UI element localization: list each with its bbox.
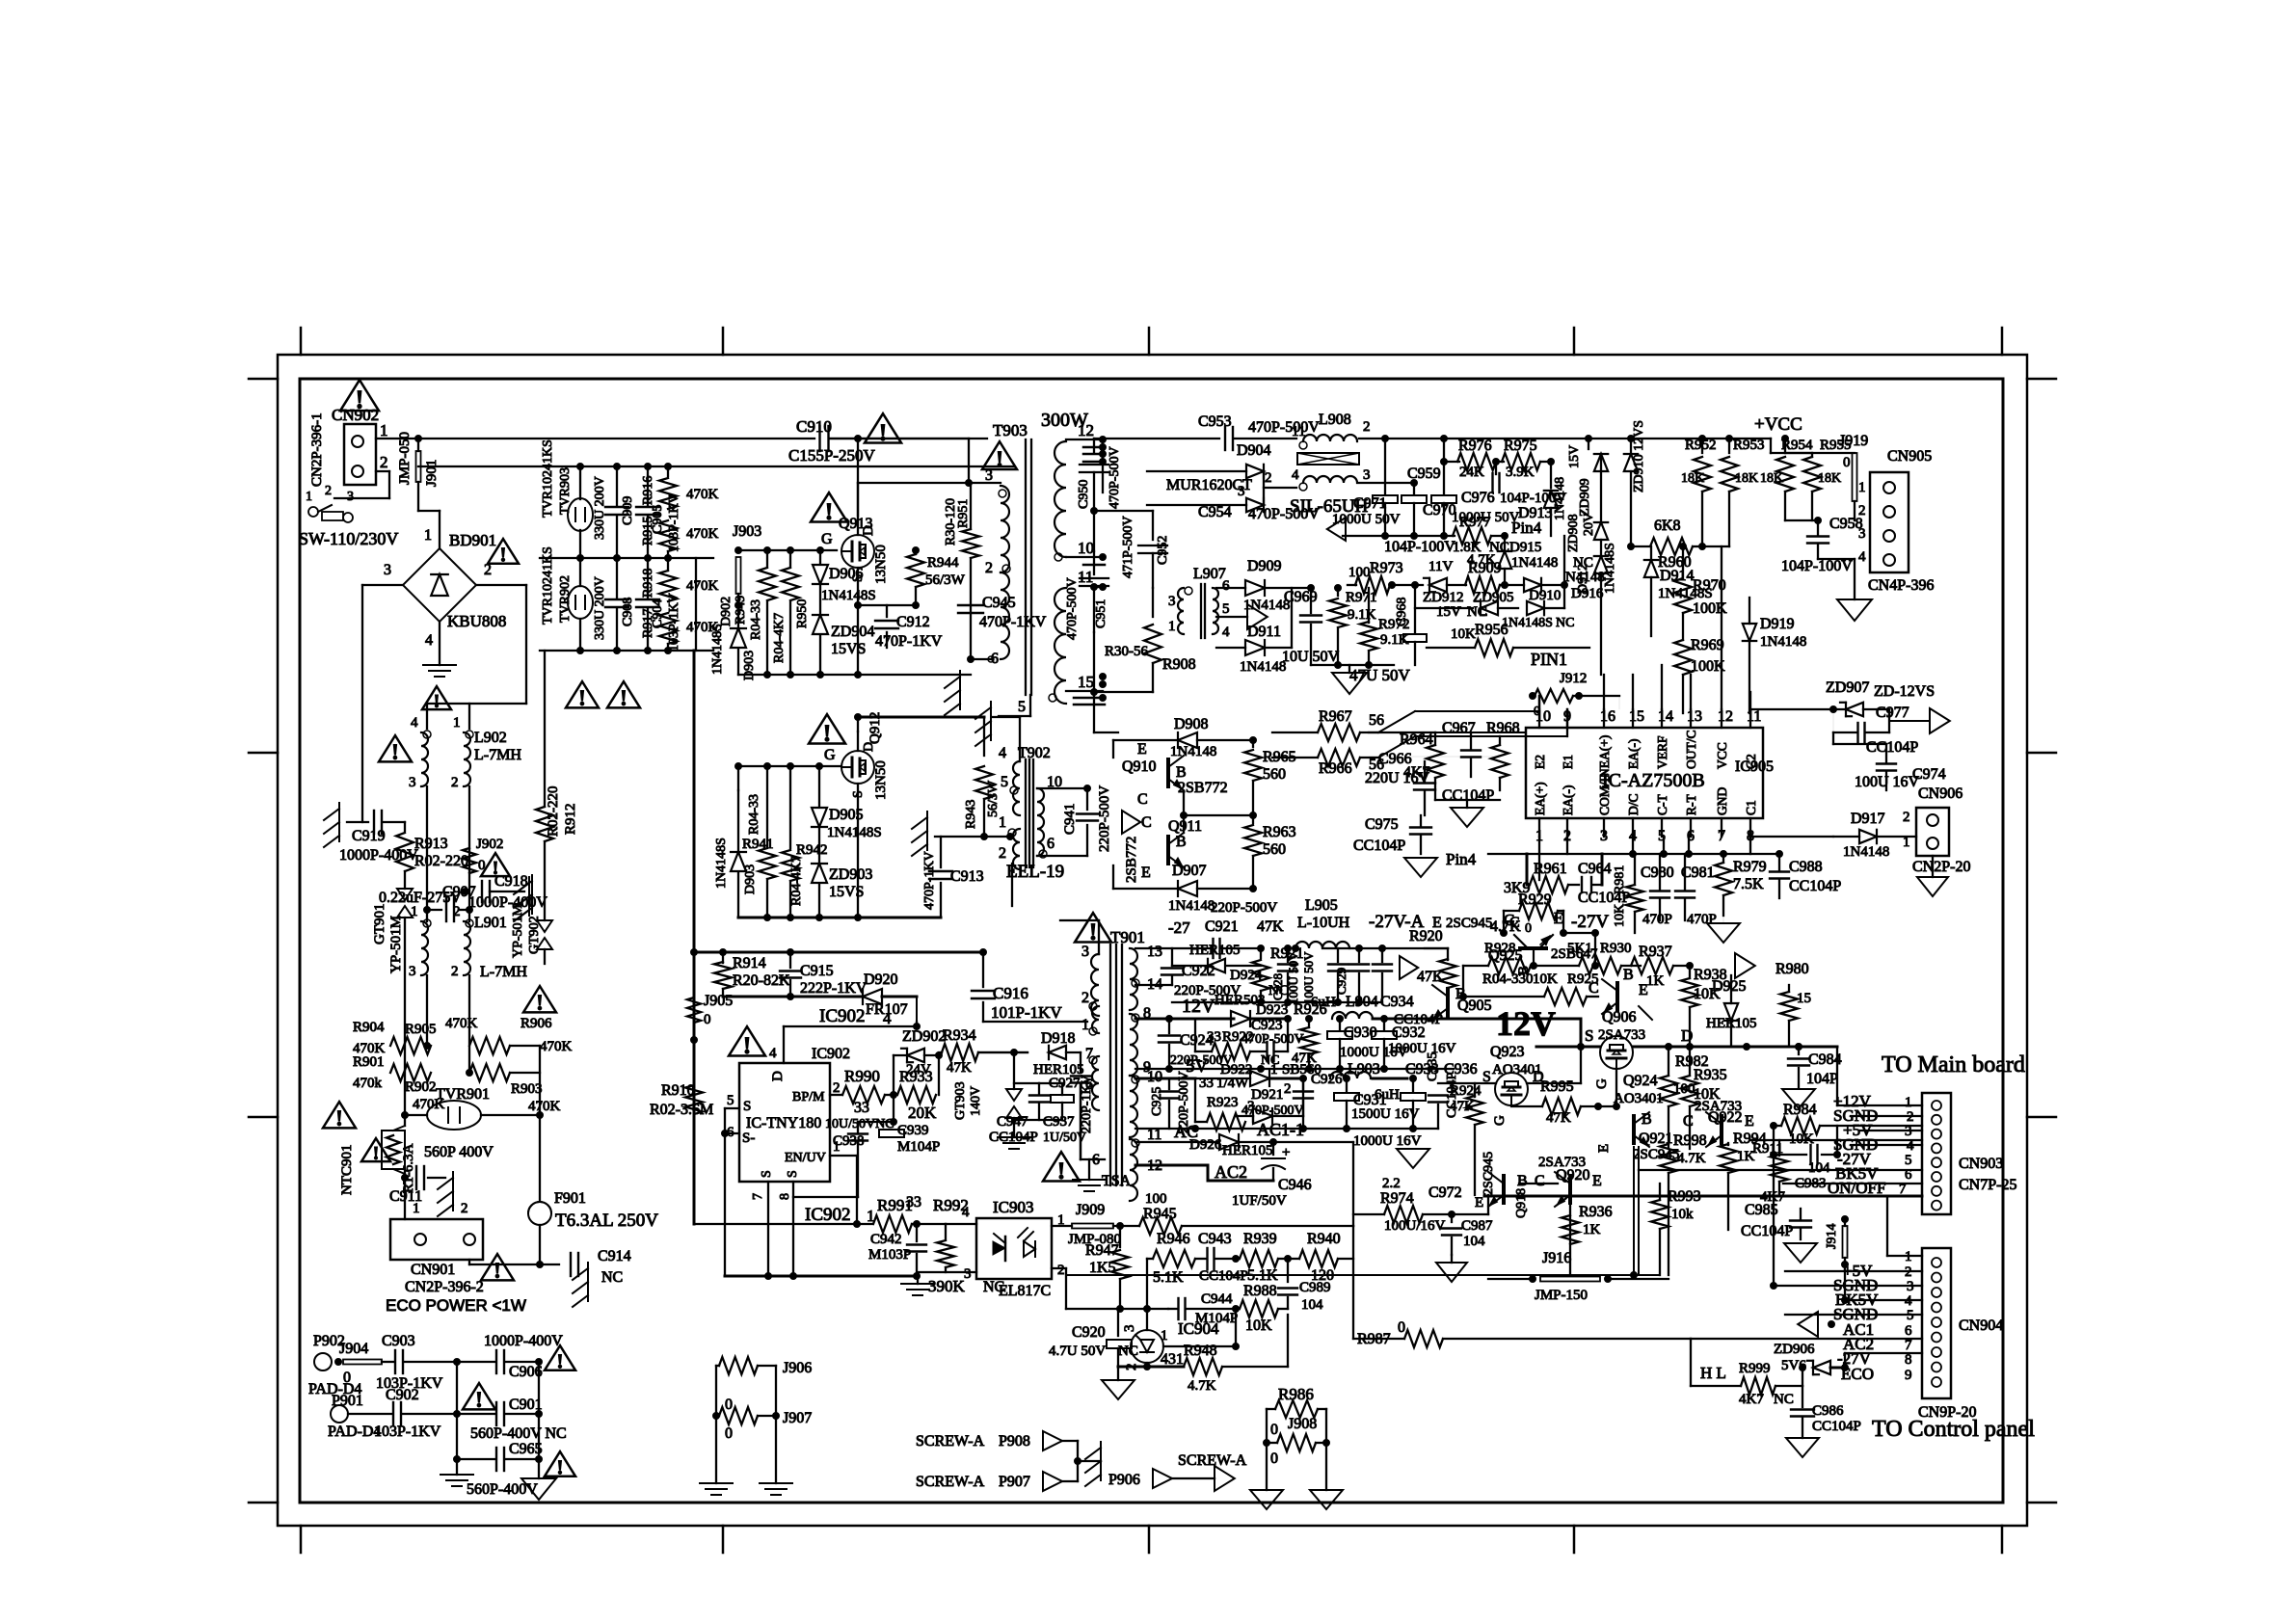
svg-text:33: 33 xyxy=(854,1100,869,1116)
svg-text:1K: 1K xyxy=(1583,1222,1601,1237)
svg-text:R901: R901 xyxy=(353,1054,385,1070)
svg-text:15V: 15V xyxy=(1436,604,1461,620)
svg-text:1N4148: 1N4148 xyxy=(1843,844,1889,860)
svg-text:C913: C913 xyxy=(950,868,984,885)
svg-text:R971: R971 xyxy=(1346,590,1377,605)
svg-text:10: 10 xyxy=(1078,539,1094,557)
svg-text:R903: R903 xyxy=(511,1081,543,1097)
capacitor C907 0.22uF-275V xyxy=(424,907,431,914)
svg-text:2SB772: 2SB772 xyxy=(1178,780,1228,796)
choke L901 L-7MH xyxy=(423,919,431,927)
svg-text:R924: R924 xyxy=(1450,1083,1482,1099)
pointer triangle right xyxy=(1930,708,1950,733)
svg-text:D911: D911 xyxy=(1247,624,1281,640)
svg-text:C950: C950 xyxy=(1077,480,1091,509)
svg-text:560P-400V NC: 560P-400V NC xyxy=(470,1425,567,1442)
svg-text:10K: 10K xyxy=(1451,626,1476,642)
resistor 6K8 R960 xyxy=(1650,538,1693,555)
resistor R965 560 xyxy=(1252,740,1254,747)
resistor R30-56 R908 xyxy=(1152,588,1154,617)
resistor R951 R30-120 xyxy=(962,529,979,558)
warning triangle TNY xyxy=(729,1026,765,1055)
wires CN904 rows xyxy=(1785,1270,1922,1272)
capacitor C950 470P-500V xyxy=(1093,439,1095,453)
svg-text:B: B xyxy=(1642,1111,1652,1128)
svg-text:1: 1 xyxy=(1081,1017,1089,1033)
svg-text:-27V: -27V xyxy=(1571,912,1609,932)
ground C987 xyxy=(1436,1263,1467,1282)
svg-text:10K: 10K xyxy=(1613,904,1627,927)
svg-text:1: 1 xyxy=(380,421,388,439)
wire ON/OFF down to CN904 xyxy=(1879,1196,1881,1256)
svg-text:!: ! xyxy=(556,1350,563,1373)
svg-text:1: 1 xyxy=(453,715,461,731)
svg-text:D918: D918 xyxy=(1041,1030,1076,1047)
svg-text:R-T: R-T xyxy=(1684,794,1698,816)
svg-text:R969: R969 xyxy=(1691,637,1724,653)
jumper J902 xyxy=(463,848,476,873)
warning triangles below TVR bank xyxy=(566,681,599,707)
resistor R949 R04-33 xyxy=(766,550,768,567)
svg-text:R943: R943 xyxy=(964,800,978,829)
svg-text:4.7K: 4.7K xyxy=(1677,1151,1706,1166)
right vertical join C906-C965 xyxy=(538,1362,540,1459)
ground C984 xyxy=(1782,1089,1815,1108)
mid bus y=579 xyxy=(540,557,713,559)
svg-text:E: E xyxy=(1137,741,1147,758)
VCC top bus xyxy=(1359,438,1771,439)
svg-text:CC104P: CC104P xyxy=(1442,787,1494,804)
svg-text:!: ! xyxy=(823,719,832,747)
svg-text:R998: R998 xyxy=(1673,1132,1707,1149)
svg-text:C910: C910 xyxy=(796,417,832,436)
regulator cluster 12V rail xyxy=(1454,1018,1581,1021)
svg-text:470K: 470K xyxy=(445,1016,478,1031)
jumper resistor J906 xyxy=(719,1357,758,1374)
diode D913 1N4148 vertical xyxy=(1550,462,1552,488)
svg-text:R961: R961 xyxy=(1534,861,1567,877)
svg-text:12: 12 xyxy=(1078,421,1094,439)
svg-text:CN903: CN903 xyxy=(1959,1156,2003,1172)
svg-text:7: 7 xyxy=(751,1193,765,1200)
svg-text:D/C: D/C xyxy=(1626,793,1641,815)
svg-text:EA(+): EA(+) xyxy=(1533,782,1547,815)
wire drain top xyxy=(829,438,969,439)
svg-text:IC902: IC902 xyxy=(819,1006,866,1026)
capacitor C970 1000U 50V xyxy=(1443,439,1445,493)
svg-text:E: E xyxy=(1141,865,1151,881)
svg-text:D907: D907 xyxy=(1172,863,1207,879)
svg-text:R999: R999 xyxy=(1739,1361,1771,1376)
capacitor C916 101P-1KV xyxy=(982,952,984,987)
resistor R916 470K xyxy=(667,466,669,476)
svg-text:S: S xyxy=(760,1170,774,1178)
svg-text:ZD903: ZD903 xyxy=(829,866,872,883)
resistor R966 56 xyxy=(1318,749,1360,766)
svg-text:1/4W: 1/4W xyxy=(1216,1076,1249,1091)
svg-text:24K: 24K xyxy=(1459,465,1484,480)
svg-text:CC104P: CC104P xyxy=(1789,878,1841,894)
svg-text:TO Control panel: TO Control panel xyxy=(1872,1417,2035,1442)
svg-text:15: 15 xyxy=(1797,991,1811,1006)
zener ZD905 15V NC xyxy=(1415,607,1473,609)
svg-text:L902: L902 xyxy=(474,730,507,746)
T903 core xyxy=(1025,439,1027,695)
ground C975 xyxy=(1404,858,1437,877)
wires from IC905 top pins xyxy=(1538,696,1540,709)
svg-text:CC104P: CC104P xyxy=(1741,1223,1793,1239)
svg-text:1U/50V: 1U/50V xyxy=(1043,1131,1086,1145)
bottom ground bus xyxy=(725,1275,917,1278)
svg-text:R930: R930 xyxy=(1600,941,1632,956)
wires Q918-Q920 xyxy=(1519,1183,1554,1184)
svg-text:J914: J914 xyxy=(1825,1224,1839,1249)
svg-text:R966: R966 xyxy=(1319,760,1352,777)
svg-text:47K: 47K xyxy=(1546,1110,1571,1126)
jumper J905 xyxy=(687,998,701,1023)
ground at bridge pin4 xyxy=(439,622,441,665)
svg-text:S-: S- xyxy=(742,1131,755,1146)
svg-text:470K: 470K xyxy=(540,1039,573,1054)
svg-text:13N50: 13N50 xyxy=(873,760,889,800)
wire Q924 gate down xyxy=(1615,1069,1617,1106)
capacitor C965 560P-400V xyxy=(457,1458,494,1460)
svg-text:222P-1KV: 222P-1KV xyxy=(800,980,868,997)
svg-text:C941: C941 xyxy=(1062,803,1078,835)
svg-text:NC: NC xyxy=(1467,604,1487,620)
capacitor C931 1500U 16V xyxy=(1344,1076,1350,1082)
capacitor C928 100U 50V xyxy=(1285,945,1292,952)
svg-text:3: 3 xyxy=(409,964,416,979)
ground triangle bottom-left xyxy=(538,1459,540,1478)
T901 secondary 11-12 xyxy=(1130,1139,1137,1201)
buffer triangle mid xyxy=(1247,604,1268,629)
T901 secondary 8-9 xyxy=(1130,1014,1137,1076)
svg-text:47K: 47K xyxy=(947,1060,972,1076)
svg-text:NC: NC xyxy=(1556,616,1574,630)
svg-text:471P-500V: 471P-500V xyxy=(1121,516,1135,578)
resistor R939 5.1K xyxy=(1240,1250,1278,1267)
svg-text:C975: C975 xyxy=(1365,816,1399,833)
svg-text:10U 50V: 10U 50V xyxy=(1282,649,1340,665)
svg-text:8: 8 xyxy=(778,1193,792,1200)
svg-text:6: 6 xyxy=(1047,836,1055,852)
svg-text:7.5K: 7.5K xyxy=(1733,876,1764,892)
resistor R979 7.5K xyxy=(1715,863,1732,895)
svg-text:3: 3 xyxy=(1238,484,1245,499)
row R973 ZD912 R909 D916 xyxy=(1348,584,1356,586)
wire 12V to CN903 xyxy=(1836,1047,1838,1105)
svg-text:CN4P-396: CN4P-396 xyxy=(1868,577,1934,594)
bottom 5V filter row xyxy=(1135,1128,1438,1130)
svg-text:C988: C988 xyxy=(1789,859,1823,875)
svg-text:HER105: HER105 xyxy=(1222,1143,1273,1158)
IC902 IC-TNY180 box xyxy=(739,1063,830,1182)
zener ZD908 20V xyxy=(1600,454,1602,521)
svg-text:C929: C929 xyxy=(1334,968,1348,995)
svg-text:VERF: VERF xyxy=(1655,735,1669,769)
wires Q910/Q911 collectors xyxy=(1184,814,1253,816)
wire R974 to Q918 xyxy=(1469,1213,1488,1215)
ground 10U xyxy=(1311,664,1394,666)
svg-text:R995: R995 xyxy=(1540,1078,1574,1095)
T903 secondary winding upper xyxy=(1055,441,1066,557)
svg-text:NTC901: NTC901 xyxy=(339,1145,355,1196)
capacitor C942 M103P xyxy=(916,1224,918,1241)
capacitors C938 C939 M104P xyxy=(893,1095,894,1122)
svg-text:560P 400V: 560P 400V xyxy=(424,1144,494,1160)
svg-text:R30-56: R30-56 xyxy=(1105,644,1149,659)
svg-text:RT-6.3A: RT-6.3A xyxy=(401,1143,416,1193)
svg-text:L904: L904 xyxy=(1346,994,1378,1010)
resistor R946 5.1K xyxy=(1146,1259,1148,1309)
resistor R964 4K7 xyxy=(1427,745,1444,778)
ground 390K NC xyxy=(901,1283,934,1285)
svg-text:1N4148: 1N4148 xyxy=(1170,744,1216,759)
svg-text:R947: R947 xyxy=(1085,1242,1119,1259)
bottom bus 104P-100V xyxy=(1343,535,1455,537)
svg-text:+VCC: +VCC xyxy=(1754,414,1802,435)
svg-text:G: G xyxy=(1492,1115,1508,1126)
svg-text:C987: C987 xyxy=(1461,1218,1493,1234)
left bus from GT901 xyxy=(404,918,406,1115)
svg-text:EA(-): EA(-) xyxy=(1561,785,1575,815)
svg-text:33: 33 xyxy=(906,1194,921,1211)
svg-text:HER105: HER105 xyxy=(1189,943,1241,958)
svg-text:100K: 100K xyxy=(1691,658,1725,675)
svg-text:!: ! xyxy=(556,1456,563,1479)
svg-text:R980: R980 xyxy=(1775,961,1809,977)
svg-text:470P-500V: 470P-500V xyxy=(1065,577,1080,640)
svg-text:C942: C942 xyxy=(870,1232,902,1247)
resistor R992 xyxy=(917,1223,946,1225)
svg-text:1N4148: 1N4148 xyxy=(1511,555,1558,571)
svg-text:P907: P907 xyxy=(999,1474,1030,1490)
svg-text:470P-1KV: 470P-1KV xyxy=(979,614,1047,630)
diode D909 1N4148 xyxy=(1216,587,1245,589)
svg-text:CC104P: CC104P xyxy=(1866,739,1918,756)
svg-text:R936: R936 xyxy=(1579,1204,1613,1220)
svg-text:2: 2 xyxy=(453,904,461,919)
ground C986 xyxy=(1786,1438,1819,1457)
svg-text:C902: C902 xyxy=(386,1387,419,1403)
capacitor C986 CC104P xyxy=(1802,1386,1803,1407)
svg-text:COM/INEA(+): COM/INEA(+) xyxy=(1597,735,1612,815)
resistor R969 100K xyxy=(1674,640,1692,675)
svg-text:4: 4 xyxy=(425,632,433,649)
svg-text:CC104P: CC104P xyxy=(1394,1012,1443,1027)
svg-text:C952: C952 xyxy=(1156,536,1170,565)
svg-text:5: 5 xyxy=(1001,774,1008,790)
svg-text:1UF/50V: 1UF/50V xyxy=(1232,1193,1287,1209)
svg-text:R906: R906 xyxy=(521,1016,552,1031)
buffer triangle C941 xyxy=(1122,811,1140,834)
jumper J914 xyxy=(1842,1216,1849,1223)
svg-text:470P-1KV: 470P-1KV xyxy=(875,633,943,650)
svg-text:SCREW-A: SCREW-A xyxy=(1178,1452,1247,1469)
svg-text:220P-500V: 220P-500V xyxy=(1097,785,1112,852)
ground R968 xyxy=(1435,799,1500,801)
svg-text:J912: J912 xyxy=(1560,671,1587,686)
svg-text:6: 6 xyxy=(991,651,999,667)
svg-text:2: 2 xyxy=(380,453,388,471)
svg-text:4K7: 4K7 xyxy=(1739,1392,1764,1407)
svg-text:R905: R905 xyxy=(405,1022,437,1037)
wire bridge pin3 down-left xyxy=(362,584,403,586)
diode D903 1N4148S lower xyxy=(731,852,746,871)
svg-text:2: 2 xyxy=(451,775,459,790)
svg-text:0: 0 xyxy=(725,1425,733,1442)
svg-text:GT902: GT902 xyxy=(527,916,542,954)
svg-text:R04-4K7: R04-4K7 xyxy=(789,856,804,906)
svg-text:NC: NC xyxy=(1774,1392,1794,1407)
bridge rectifier BD901 KBU808 xyxy=(403,548,476,622)
svg-text:C989: C989 xyxy=(1299,1280,1331,1295)
svg-text:C: C xyxy=(1535,1173,1545,1189)
svg-text:R984: R984 xyxy=(1783,1102,1817,1118)
svg-text:E: E xyxy=(1475,1195,1483,1211)
svg-text:TVR901: TVR901 xyxy=(436,1086,490,1103)
svg-text:IC903: IC903 xyxy=(993,1198,1034,1216)
svg-text:3: 3 xyxy=(1122,1325,1137,1333)
spark gap GT902 YP-501M xyxy=(537,920,552,932)
pad P901 xyxy=(331,1405,348,1423)
svg-text:9: 9 xyxy=(1905,1368,1912,1383)
svg-text:ZD904: ZD904 xyxy=(831,624,874,640)
svg-text:13N50: 13N50 xyxy=(873,545,889,584)
svg-text:2: 2 xyxy=(1265,470,1272,486)
wire CN902 pin2 xyxy=(376,470,389,472)
diode D906 1N4148S xyxy=(819,550,821,563)
svg-text:IC902: IC902 xyxy=(812,1046,850,1062)
resistor R963 560 xyxy=(1252,815,1254,823)
warning triangle Q912 xyxy=(809,714,845,743)
resistor R913 R02-220 xyxy=(404,822,406,831)
svg-text:EN/UV: EN/UV xyxy=(785,1151,826,1165)
capacitor C941 220P-500V xyxy=(1084,785,1091,792)
svg-text:R929: R929 xyxy=(1518,891,1552,908)
ground -27V row xyxy=(1172,1001,1382,1003)
MOSFET Q913 13N50 xyxy=(841,535,874,568)
svg-text:IC-AZ7500B: IC-AZ7500B xyxy=(1602,770,1705,791)
svg-text:4: 4 xyxy=(999,745,1006,761)
svg-text:18K: 18K xyxy=(1681,471,1704,486)
svg-text:IC-TNY180: IC-TNY180 xyxy=(746,1115,821,1131)
svg-text:P901: P901 xyxy=(332,1393,363,1409)
wire secondary mid xyxy=(1093,511,1095,551)
zener ZD903 15VS xyxy=(812,864,827,883)
resistor R928 R04-330 xyxy=(1488,957,1531,974)
capacitor C905 103P-1KV xyxy=(647,466,649,505)
svg-text:1: 1 xyxy=(413,1201,420,1216)
transformer T901 xyxy=(1075,913,1111,942)
diode D910 1N4148S NC xyxy=(1527,601,1544,615)
wire bridge pin2 right xyxy=(476,584,526,586)
svg-text:IC902: IC902 xyxy=(805,1205,851,1225)
svg-text:2: 2 xyxy=(985,560,993,576)
wire to T902 pin1 xyxy=(1009,837,1011,838)
svg-text:C909: C909 xyxy=(621,496,635,525)
wire Q925 row xyxy=(1463,932,1504,934)
svg-text:C915: C915 xyxy=(800,963,834,979)
svg-text:33: 33 xyxy=(1199,1076,1214,1091)
ground mid right xyxy=(1722,916,1724,923)
svg-text:E: E xyxy=(1592,1173,1602,1189)
12V row from T901 pin8 xyxy=(1135,1018,1234,1021)
svg-text:R934: R934 xyxy=(943,1027,976,1044)
svg-text:1K: 1K xyxy=(1646,973,1665,989)
svg-text:C971: C971 xyxy=(1353,495,1387,512)
pointer triangle SGND xyxy=(1798,1312,1818,1337)
svg-text:TVR903: TVR903 xyxy=(558,467,573,515)
svg-text:ZD910 12VS: ZD910 12VS xyxy=(1632,420,1646,492)
svg-text:S: S xyxy=(786,1170,800,1178)
T903 pin 15 wire down xyxy=(1093,692,1095,732)
varistor TVR901 xyxy=(323,1102,356,1128)
svg-text:ZD905: ZD905 xyxy=(1473,590,1514,605)
svg-text:3: 3 xyxy=(1363,467,1371,483)
svg-text:103P-1KV: 103P-1KV xyxy=(667,493,681,552)
svg-text:1000P-400V: 1000P-400V xyxy=(339,847,418,864)
wires below L901 xyxy=(426,975,428,1046)
opto internals xyxy=(1004,1237,1007,1261)
svg-text:104P-100V: 104P-100V xyxy=(1781,558,1853,574)
svg-text:D925: D925 xyxy=(1712,978,1747,995)
svg-text:104: 104 xyxy=(1301,1297,1323,1313)
svg-text:1N4148: 1N4148 xyxy=(1553,477,1567,520)
capacitor C906 1000P-400V xyxy=(457,1361,494,1363)
wires CN903 rows xyxy=(1750,1139,1922,1141)
svg-text:D915: D915 xyxy=(1509,540,1541,555)
svg-text:470P-500V: 470P-500V xyxy=(1108,446,1122,509)
svg-text:Q910: Q910 xyxy=(1122,758,1157,775)
transistor Q921 2SC945 xyxy=(1634,1112,1649,1147)
svg-text:E2: E2 xyxy=(1533,755,1547,769)
svg-text:CN904: CN904 xyxy=(1959,1317,2003,1334)
svg-text:NC: NC xyxy=(1118,1344,1138,1359)
svg-text:56: 56 xyxy=(1369,712,1384,729)
diode D919 1N4148 xyxy=(1743,624,1756,641)
wire Q921 E down xyxy=(1633,1147,1635,1275)
svg-text:R975: R975 xyxy=(1504,438,1537,454)
resistor R968 xyxy=(1491,745,1508,778)
warning triangle fuse xyxy=(481,1254,514,1280)
svg-text:!: ! xyxy=(434,691,441,712)
svg-text:G: G xyxy=(821,531,833,547)
svg-text:B: B xyxy=(1176,834,1187,850)
svg-text:4.7K: 4.7K xyxy=(1188,1378,1216,1394)
svg-text:18K: 18K xyxy=(1735,471,1758,486)
diode D920 FR107 xyxy=(723,996,863,998)
svg-text:3.9K: 3.9K xyxy=(1506,465,1535,480)
pointer triangle -27V out xyxy=(1690,965,1731,967)
svg-text:JMP-050: JMP-050 xyxy=(397,432,413,485)
svg-text:R951: R951 xyxy=(956,499,971,528)
capacitor C953 470P-500V xyxy=(1094,438,1219,439)
diode D914 1N4148S xyxy=(1628,544,1635,550)
diode D915 1N4148 NC xyxy=(1504,536,1506,549)
svg-text:Q923: Q923 xyxy=(1490,1044,1525,1060)
svg-text:R04-33: R04-33 xyxy=(749,599,763,640)
svg-text:GT901: GT901 xyxy=(372,904,387,945)
svg-text:C916: C916 xyxy=(993,984,1028,1002)
svg-text:D904: D904 xyxy=(1237,442,1271,459)
svg-text:NC: NC xyxy=(601,1269,623,1286)
svg-text:CN2P-396-1: CN2P-396-1 xyxy=(309,412,325,487)
svg-text:470P: 470P xyxy=(1642,912,1672,927)
svg-text:C1: C1 xyxy=(1744,800,1758,815)
svg-text:13: 13 xyxy=(1687,708,1702,725)
